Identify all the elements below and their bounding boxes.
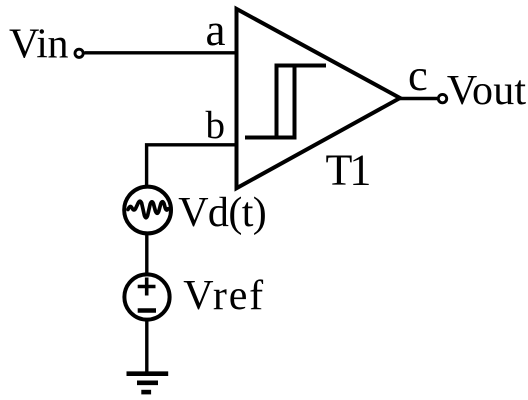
hysteresis symbol (upper branch) — [277, 66, 327, 138]
minus sign — [138, 308, 156, 313]
svg-text:Vout: Vout — [447, 68, 527, 114]
source Vd(t) — [124, 187, 171, 234]
svg-text:c: c — [408, 50, 428, 100]
comparator T1 — [237, 9, 401, 188]
svg-text:Vin: Vin — [9, 22, 68, 68]
ground — [127, 374, 169, 392]
terminal Vout — [438, 94, 446, 102]
wire Vref to ground — [145, 320, 148, 372]
wire output — [398, 97, 437, 100]
noise waveform inside Vd(t) — [128, 201, 168, 218]
wire node b to Vd(t) — [147, 145, 236, 187]
svg-text:Vref: Vref — [183, 273, 265, 319]
svg-text:Vd(t): Vd(t) — [178, 190, 266, 236]
svg-text:a: a — [206, 5, 226, 55]
svg-text:T1: T1 — [326, 146, 370, 195]
svg-text:b: b — [206, 104, 226, 147]
plus sign — [138, 278, 156, 296]
source Vref — [124, 274, 169, 319]
wire Vd(t) to Vref — [145, 234, 148, 275]
hysteresis symbol (lower branch) — [245, 66, 295, 138]
wire Vin to node a — [85, 51, 237, 54]
terminal Vin — [75, 49, 83, 57]
